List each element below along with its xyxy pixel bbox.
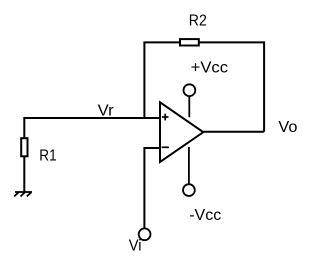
resistor R1 bbox=[21, 138, 27, 156]
svg-text:-Vcc: -Vcc bbox=[189, 207, 221, 224]
terminal +Vcc circle bbox=[184, 84, 196, 96]
op-amp non-inverting plus sign bbox=[162, 114, 169, 121]
wire Vr horizontal from R1 top to op-amp + input bbox=[24, 117, 160, 119]
op-amp inverting minus sign bbox=[162, 146, 169, 148]
svg-text:Vr: Vr bbox=[98, 102, 115, 119]
svg-text:Vi: Vi bbox=[129, 238, 142, 255]
terminal -Vcc circle bbox=[183, 184, 195, 196]
wire +Vcc pin bbox=[188, 96, 190, 117]
wire output horizontal to node Vo bbox=[203, 131, 264, 133]
ground bbox=[14, 192, 32, 196]
resistor R2 bbox=[180, 39, 199, 45]
wire top horizontal left of R2 bbox=[143, 41, 180, 43]
svg-text:R1: R1 bbox=[39, 148, 56, 165]
svg-text:Vo: Vo bbox=[278, 119, 297, 136]
terminal Vi circle bbox=[139, 228, 151, 240]
wire inverting input horizontal bbox=[144, 147, 160, 149]
wire right vertical bbox=[263, 41, 265, 131]
wire Vi vertical bbox=[143, 147, 145, 228]
svg-text:+Vcc: +Vcc bbox=[191, 59, 229, 76]
wire top horizontal right of R2 bbox=[199, 41, 264, 43]
svg-text:R2: R2 bbox=[189, 13, 207, 30]
wire -Vcc pin bbox=[188, 147, 190, 184]
wire R1 bottom lead bbox=[23, 156, 25, 192]
wire feedback vertical bbox=[143, 42, 145, 118]
wire R1 top lead bbox=[23, 117, 25, 139]
op-amp U1 triangle bbox=[160, 102, 203, 162]
